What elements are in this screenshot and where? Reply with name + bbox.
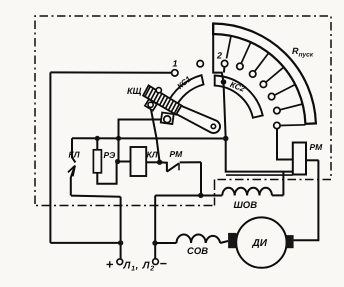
brush right bbox=[286, 235, 293, 248]
segment KC1 bbox=[167, 75, 204, 109]
wire bottom left horizontal bbox=[50, 242, 120, 244]
lever pivot hole bbox=[211, 124, 215, 128]
wire left column from top corner to bottom bbox=[49, 72, 51, 243]
wire KL coil right bbox=[146, 161, 159, 163]
link pivot circle bbox=[164, 116, 171, 123]
svg-text:ДИ: ДИ bbox=[252, 238, 268, 249]
svg-text:1: 1 bbox=[173, 59, 178, 69]
motor DI bbox=[236, 217, 286, 267]
segment KC2 bbox=[215, 76, 263, 118]
svg-text:Rпуск: Rпуск bbox=[292, 46, 314, 59]
winding SOV bbox=[177, 235, 221, 244]
enclosure dash-dot border bottom right bbox=[215, 179, 332, 181]
wire RM coil right bbox=[306, 159, 319, 161]
brush left bbox=[228, 233, 236, 248]
node KC2 dot bbox=[221, 79, 227, 85]
contact RM bbox=[160, 162, 201, 172]
svg-text:СОВ: СОВ bbox=[187, 246, 208, 257]
svg-text:ШОВ: ШОВ bbox=[234, 200, 258, 211]
node SHOV left bbox=[198, 193, 203, 198]
contact stud blank bbox=[197, 61, 203, 67]
wire SOV leads bbox=[155, 241, 228, 243]
rheostat contact studs bbox=[221, 60, 280, 128]
terminal minus sign bbox=[160, 263, 166, 265]
node brush junction bbox=[157, 160, 162, 165]
svg-text:РЭ: РЭ bbox=[104, 150, 116, 160]
svg-text:Л1, Л2: Л1, Л2 bbox=[123, 261, 155, 273]
wire to KL coil bbox=[118, 161, 131, 163]
wire stud2 stub bbox=[223, 67, 226, 73]
wire brush lead bbox=[151, 107, 160, 162]
wire motor right bbox=[294, 160, 319, 240]
svg-text:КЩ: КЩ bbox=[127, 86, 142, 96]
enclosure dash-dot border left top right bbox=[35, 16, 331, 204]
svg-text:2: 2 bbox=[216, 51, 222, 61]
node L1 junction bbox=[118, 240, 123, 245]
node RE KL junction bbox=[115, 159, 120, 164]
svg-text:КС2: КС2 bbox=[229, 80, 247, 94]
wire L1 riser bbox=[120, 197, 122, 259]
contactor coil KL bbox=[131, 147, 147, 176]
lever arm bbox=[175, 106, 220, 134]
rheostat radial taps bbox=[227, 36, 306, 126]
brush hinge tab bbox=[145, 99, 157, 110]
node RE top bbox=[95, 136, 100, 141]
brush KSCH hatched bbox=[143, 85, 181, 114]
node SOV junction bbox=[152, 240, 157, 245]
relay RE bbox=[93, 150, 101, 173]
contact stud 1 bbox=[172, 70, 178, 76]
pivot circle tab bbox=[148, 102, 153, 107]
wire KC2 dot to pivot junction bbox=[224, 82, 226, 139]
terminal L1 circle bbox=[117, 259, 123, 265]
wire band edge down to KC2 bbox=[213, 24, 223, 81]
wire top horizontal to contact 1 bbox=[50, 71, 171, 73]
wire last contact to RM coil bbox=[277, 129, 293, 160]
wire middle horizontal bus bbox=[72, 137, 226, 139]
winding SHOV bbox=[222, 188, 272, 196]
terminal L2 circle bbox=[153, 259, 159, 265]
enclosure dash-dot border bottom left bbox=[35, 205, 213, 207]
svg-text:КЛ: КЛ bbox=[69, 150, 80, 160]
node riser top bbox=[116, 136, 121, 141]
enclosure dash-dot border step bbox=[214, 180, 216, 206]
svg-text:РМ: РМ bbox=[170, 149, 184, 159]
terminal plus sign bbox=[107, 261, 114, 267]
svg-text:КЛ: КЛ bbox=[147, 150, 158, 160]
wire shunt bus bbox=[155, 195, 222, 197]
pivot circle brush top bbox=[156, 88, 161, 93]
node pivot junction bbox=[223, 136, 229, 142]
contactor contact KL bbox=[68, 138, 76, 195]
wire KL bottom bbox=[71, 196, 121, 197]
rheostat band R_pusk bbox=[213, 24, 316, 124]
wire riser to link bbox=[119, 120, 162, 162]
wire pivot to RM coil (double) bbox=[226, 139, 293, 172]
wire RE bottom loop bbox=[97, 162, 116, 184]
relay coil RM bbox=[293, 143, 306, 175]
svg-text:РМ: РМ bbox=[310, 142, 324, 152]
wire RE top lead bbox=[96, 138, 98, 150]
wire L2 riser bbox=[154, 196, 156, 259]
link block bbox=[161, 113, 174, 125]
wire SHOV right riser bbox=[272, 172, 284, 196]
svg-text:КС1: КС1 bbox=[176, 74, 194, 91]
wire RM contact drop bbox=[200, 162, 202, 195]
